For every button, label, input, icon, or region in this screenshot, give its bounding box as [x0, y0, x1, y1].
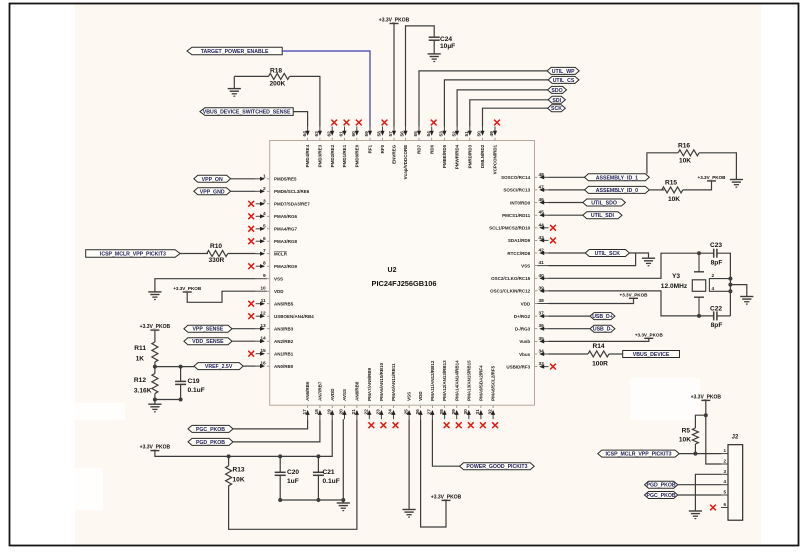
wire C24 to ground: [433, 40, 435, 54]
svg-text:AN7/RB7: AN7/RB7: [318, 381, 323, 401]
ground at pin 9 VSS: [148, 292, 161, 300]
junction R5 tap: [704, 413, 708, 417]
pin 57 ENVREG: [388, 127, 396, 164]
svg-text:3: 3: [723, 469, 726, 474]
ground below R18: [228, 89, 241, 97]
svg-text:0.1uF: 0.1uF: [323, 478, 340, 485]
junction C19 bottom: [179, 398, 183, 402]
svg-text:55: 55: [413, 131, 419, 137]
J2 pin 4: [721, 479, 728, 485]
svg-text:SCL1/PMCS2/RD10: SCL1/PMCS2/RD10: [489, 226, 531, 231]
wire pin 10 VDD to +3.3V_PKOB: [187, 291, 256, 302]
svg-text:USBOEN/AN4/RB4: USBOEN/AN4/RB4: [274, 314, 314, 319]
svg-text:POWER_GOOD_PICKIT3: POWER_GOOD_PICKIT3: [466, 464, 527, 470]
pin 32 PMA8/SCL2/RF5: [487, 365, 495, 419]
svg-text:5: 5: [723, 490, 726, 495]
svg-text:5: 5: [263, 223, 266, 229]
wire pin 41 VSS up to ground node: [549, 253, 636, 266]
svg-text:PMD7/SDA3/RE7: PMD7/SDA3/RE7: [274, 202, 310, 207]
svg-text:43: 43: [539, 235, 545, 241]
pin 43 SDA1/RD9: [508, 235, 549, 243]
svg-text:45: 45: [539, 210, 545, 216]
net flag UTIL_CS: [548, 76, 579, 84]
junction C20 top: [278, 454, 282, 458]
pin 60 PMD0/RE0: [351, 127, 359, 168]
svg-text:1K: 1K: [136, 356, 145, 363]
svg-text:19: 19: [326, 409, 332, 415]
svg-text:13: 13: [260, 323, 266, 329]
svg-text:17: 17: [302, 409, 308, 415]
svg-text:40: 40: [539, 273, 545, 279]
svg-text:+3.3V_PKOB: +3.3V_PKOB: [698, 175, 727, 180]
wire R16 to ground: [699, 153, 736, 180]
svg-text:ICSP_MCLR_VPP_PICKIT3: ICSP_MCLR_VPP_PICKIT3: [100, 252, 166, 258]
wire ASSEMBLY_ID_1 to R16: [647, 153, 678, 174]
no-connect X pin 22: [368, 422, 374, 428]
svg-text:PMBE/RD5: PMBE/RD5: [442, 144, 447, 168]
svg-text:7: 7: [263, 248, 266, 254]
svg-text:42: 42: [539, 248, 545, 254]
power +3.3V_PKOB at pin 26: [431, 494, 462, 500]
net flag UTIL_SDI: [583, 212, 622, 220]
svg-text:PMD4/RE4: PMD4/RE4: [305, 144, 310, 167]
svg-text:SCK: SCK: [551, 106, 562, 112]
svg-text:PMA9/SDA2/RF4: PMA9/SDA2/RF4: [479, 365, 484, 401]
svg-text:1: 1: [263, 173, 266, 179]
pin 29 PMA14/AN14/RB14: [451, 360, 459, 419]
svg-text:34: 34: [539, 349, 545, 355]
svg-text:30: 30: [463, 409, 469, 415]
svg-text:USB_D+: USB_D+: [592, 314, 613, 320]
pin 18 AN7/RB7: [314, 381, 322, 419]
svg-text:PGD_PKOB: PGD_PKOB: [196, 440, 225, 446]
svg-text:C24: C24: [440, 36, 452, 43]
pin 2 PMD6/SCL3/RE6: [256, 186, 310, 194]
pin 22 PMA7/AN9/RB9: [364, 367, 372, 419]
svg-text:AN8/RB8: AN8/RB8: [355, 381, 360, 401]
svg-text:PMRD/RD3: PMRD/RD3: [467, 144, 472, 168]
svg-text:100R: 100R: [592, 361, 608, 368]
svg-text:48: 48: [539, 172, 545, 178]
ground at pin 41 VSS: [642, 258, 655, 266]
wire C21 top lead: [317, 456, 319, 472]
no-connect X pin 15: [248, 351, 254, 357]
label R12: [134, 377, 146, 384]
svg-text:VCPCON/RD1: VCPCON/RD1: [493, 144, 498, 174]
svg-text:29: 29: [451, 409, 457, 415]
svg-text:63: 63: [314, 131, 320, 137]
net flag ICSP_MCLR_VPP_PICKIT3 (left): [86, 250, 180, 258]
net flag PGC_PKOB (right): [645, 492, 678, 500]
svg-text:C20: C20: [287, 469, 299, 476]
svg-text:+3.3V_PKOB: +3.3V_PKOB: [140, 324, 171, 330]
svg-text:12: 12: [260, 311, 266, 317]
pin 52 PMWR/RD4: [451, 127, 459, 170]
svg-text:Y3: Y3: [672, 273, 680, 280]
no-connect X pin 6: [248, 238, 254, 244]
label R15: [665, 180, 677, 187]
wire crystal ground tap: [730, 285, 746, 297]
pin 64 PMD4/RE4: [302, 127, 310, 168]
junction AVSS: [341, 498, 345, 502]
label C22: [710, 306, 722, 313]
svg-text:+3.3V_PKOB: +3.3V_PKOB: [140, 445, 171, 451]
svg-text:26: 26: [415, 409, 421, 415]
wire pin 50 to SCK: [483, 108, 548, 126]
svg-text:58: 58: [377, 131, 383, 137]
svg-text:PGC_PKOB: PGC_PKOB: [647, 493, 676, 499]
svg-text:VBUS_DEVICE_SWITCHED_SENSE: VBUS_DEVICE_SWITCHED_SENSE: [203, 110, 291, 116]
svg-text:VSS: VSS: [274, 277, 283, 282]
pin 30 PMA13/AN15/RB15: [463, 360, 471, 419]
svg-text:D-/RG3: D-/RG3: [515, 327, 531, 332]
svg-text:UTIL_SDI: UTIL_SDI: [591, 213, 615, 219]
wire VPP_GND to pin 2: [231, 190, 256, 192]
J2 pin 5: [721, 490, 728, 496]
svg-text:SDI: SDI: [552, 98, 561, 104]
no-connect X pin 11: [248, 301, 254, 307]
svg-text:VDD_SENSE: VDD_SENSE: [192, 339, 224, 345]
pin 36 D-/RG3: [515, 323, 549, 331]
pin 10 VDD: [256, 286, 285, 294]
svg-text:TARGET_POWER_ENABLE: TARGET_POWER_ENABLE: [201, 49, 269, 55]
svg-text:64: 64: [302, 131, 308, 137]
label 8pF (C22): [711, 322, 723, 329]
wire +3.3V_PKOB to pin 57: [393, 24, 395, 127]
svg-text:VREF_2.5V: VREF_2.5V: [205, 364, 233, 370]
svg-text:10K: 10K: [668, 196, 680, 203]
wire pin 40 OSC2 to crystal top rail: [549, 253, 714, 278]
svg-text:+3.3V_PKOB: +3.3V_PKOB: [173, 286, 202, 291]
capacitor C21: [313, 472, 324, 475]
wire ICSP_MCLR to J2 pin 1: [679, 453, 721, 455]
svg-text:21: 21: [351, 409, 357, 415]
svg-text:3.16K: 3.16K: [134, 388, 152, 395]
net flag VDD_SENSE: [184, 338, 232, 346]
ground AVSS: [337, 503, 350, 511]
svg-text:AN5/RB5: AN5/RB5: [274, 302, 294, 307]
pin 15 AN1/RB1: [256, 348, 294, 356]
pin 25 VSS: [403, 392, 411, 419]
label Y3: [672, 273, 680, 280]
svg-text:VPP_SENSE: VPP_SENSE: [192, 327, 223, 333]
pin 53 PMBE/RD5: [439, 127, 447, 169]
IC U2 part value: [372, 279, 437, 288]
svg-text:PMD2/RE2: PMD2/RE2: [330, 144, 335, 167]
svg-text:PMD5/RE5: PMD5/RE5: [274, 177, 297, 182]
wire pin 27 to POWER_GOOD_PICKIT3: [432, 419, 459, 466]
net flag USB_D+: [590, 313, 615, 321]
label 12.0MHz: [661, 283, 688, 290]
pin 58 RF0: [377, 127, 385, 154]
wire pin 53 to UTIL_CS: [444, 80, 548, 127]
svg-text:56: 56: [400, 131, 406, 137]
svg-text:R10: R10: [210, 243, 222, 250]
svg-text:OSC2/CLKO/RC15: OSC2/CLKO/RC15: [491, 276, 531, 281]
svg-text:52: 52: [451, 131, 457, 137]
svg-text:0.1uF: 0.1uF: [188, 387, 205, 394]
power +3.3V_PKOB at pin 38: [620, 292, 649, 298]
svg-text:PMA13/AN15/RB15: PMA13/AN15/RB15: [466, 360, 471, 401]
power +3.3V_PKOB at AVDD bus: [140, 445, 171, 451]
pin 37 D+/RG2: [514, 311, 549, 319]
resistor R16: [678, 150, 699, 156]
net flag VBUS_DEVICE_SWITCHED_SENSE: [200, 108, 293, 116]
label 200K: [270, 80, 286, 87]
junction crystal bottom: [697, 314, 701, 318]
svg-text:+3.3V_PKOB: +3.3V_PKOB: [620, 292, 649, 297]
label 10K (R15): [668, 196, 680, 203]
net flag PGD_PKOB (right): [645, 481, 678, 489]
wire pin 45 to UTIL_SDI: [549, 214, 583, 216]
no-connect X pin 5: [248, 226, 254, 232]
pin 27 PMA11/AN12/RB12: [427, 360, 435, 419]
svg-text:3: 3: [263, 198, 266, 204]
pin 34 Vbus: [519, 349, 548, 357]
power +3.3V_PKOB at R11: [140, 324, 171, 330]
net flag PGC_PKOB (left): [188, 425, 233, 433]
label 0.1uF (C21): [323, 478, 340, 485]
net flag USB_D-: [590, 325, 615, 333]
svg-text:57: 57: [388, 131, 394, 137]
net flag ASSEMBLY_ID_0: [585, 186, 650, 194]
svg-text:RF0: RF0: [380, 144, 385, 153]
no-connect X pin 58: [382, 120, 388, 126]
wire J2 pin 3 to ground: [695, 474, 721, 511]
wire C20/C21 ground bus: [280, 499, 343, 501]
svg-text:RD7: RD7: [417, 144, 422, 153]
no-connect X pin 44: [550, 225, 556, 231]
svg-text:J2: J2: [732, 435, 739, 441]
svg-text:C21: C21: [323, 469, 335, 476]
wire PGD_PKOB to pin 18: [233, 419, 320, 442]
svg-text:32: 32: [487, 409, 493, 415]
wire VREF node to flag: [155, 366, 194, 368]
svg-text:46: 46: [539, 197, 545, 203]
svg-text:54: 54: [426, 131, 432, 137]
svg-text:16: 16: [260, 361, 266, 367]
wire R11 bottom to node VREF: [154, 362, 156, 367]
wire ground to R18 left: [234, 75, 268, 77]
wire TARGET_POWER_ENABLE to pin 59 (blue): [282, 51, 370, 127]
svg-text:AN6/RB6: AN6/RB6: [305, 381, 310, 401]
svg-text:VPP_ON: VPP_ON: [202, 177, 223, 183]
no-connect X pin 12: [248, 313, 254, 319]
wire pin 9 VSS to ground: [155, 279, 256, 292]
op-amp U2 body (PIC24FJ256GB106 IC outline): [270, 141, 535, 406]
svg-text:60: 60: [351, 131, 357, 137]
net flag SCK: [548, 105, 566, 113]
svg-text:ICSP_MCLR_VPP_PICKIT3: ICSP_MCLR_VPP_PICKIT3: [605, 452, 671, 458]
svg-text:VBUS_DEVICE: VBUS_DEVICE: [633, 352, 670, 358]
pin 1 PMD5/RE5: [256, 173, 297, 181]
svg-text:10: 10: [260, 286, 266, 292]
junction R5 to MCLR net: [693, 452, 697, 456]
ground below R12: [148, 404, 161, 412]
wire PGC_PKOB to J2 pin 5: [678, 494, 721, 496]
svg-text:D+/RG2: D+/RG2: [514, 314, 531, 319]
svg-text:PMWR/RD4: PMWR/RD4: [455, 144, 460, 169]
no-connect X pin 23: [381, 422, 387, 428]
net flag ICSP_MCLR_VPP_PICKIT3 (right): [598, 450, 679, 458]
resistor R10: [207, 251, 228, 257]
wire pin 39 OSC1 to crystal bottom rail: [549, 291, 714, 316]
svg-text:6: 6: [263, 236, 266, 242]
svg-text:R12: R12: [134, 377, 146, 384]
svg-text:PMCS1/RD11: PMCS1/RD11: [502, 213, 531, 218]
power +3.3V_PKOB at pin 57: [379, 18, 410, 24]
svg-text:200K: 200K: [270, 80, 286, 87]
wire C22 to ground rail: [717, 315, 730, 317]
svg-text:R13: R13: [233, 467, 245, 474]
junction R12/C19 ground node: [153, 398, 157, 402]
svg-text:18: 18: [314, 409, 320, 415]
pin 13 AN3/RB3: [256, 323, 294, 331]
wire node to R12 top: [154, 367, 156, 374]
no-connect X pin 60: [356, 120, 362, 126]
wire C20 bottom lead: [279, 475, 281, 500]
crystal case pins 2 and 4: [709, 273, 730, 292]
pin 56 Vcap/VDDCORE: [400, 127, 408, 180]
label C23: [710, 242, 722, 249]
svg-text:+3.3V_PKOB: +3.3V_PKOB: [431, 494, 462, 500]
ground at R16: [730, 180, 743, 188]
svg-text:+3.3V_PKOB: +3.3V_PKOB: [691, 394, 722, 400]
svg-text:25: 25: [403, 409, 409, 415]
wire C21 bottom lead: [317, 475, 319, 500]
svg-text:2: 2: [712, 273, 715, 279]
wire C19 top lead: [180, 367, 182, 382]
wire PGD_PKOB to J2 pin 4: [678, 484, 721, 486]
pin 54 RD6: [426, 127, 434, 154]
svg-text:AVDD: AVDD: [330, 388, 335, 401]
wire pin 55 to UTIL_WP: [419, 71, 547, 127]
pin 20 AVSS: [339, 389, 347, 419]
svg-text:OSC1/CLKIN/RC12: OSC1/CLKIN/RC12: [490, 289, 531, 294]
svg-text:PIC24FJ256GB106: PIC24FJ256GB106: [372, 279, 437, 288]
svg-text:VDD: VDD: [521, 301, 531, 306]
wire R12 bottom: [154, 394, 156, 400]
svg-text:28: 28: [439, 409, 445, 415]
pin 51 PMRD/RD3: [464, 127, 472, 169]
pin 21 AN8/RB8: [351, 381, 359, 419]
wire pin 52 to SDO: [457, 90, 547, 127]
svg-text:4: 4: [723, 479, 726, 484]
no-connect X pin 31: [480, 422, 486, 428]
svg-text:44: 44: [539, 222, 545, 228]
capacitor C23: [714, 249, 717, 258]
net label VBUS_DEVICE: [623, 351, 680, 359]
svg-text:8pF: 8pF: [711, 260, 723, 267]
svg-text:15: 15: [260, 348, 266, 354]
ground at crystal: [740, 297, 753, 305]
power +3.3V_PKOB at pin 10: [173, 286, 202, 292]
svg-text:24: 24: [388, 409, 394, 415]
pin 7 MCLR: [256, 248, 288, 256]
svg-text:10K: 10K: [679, 437, 691, 444]
no-connect X pin 8: [248, 263, 254, 269]
svg-text:R18: R18: [270, 67, 282, 74]
net flag TARGET_POWER_ENABLE: [187, 47, 282, 55]
pin 28 PMA12/AN13/RB13: [439, 360, 447, 419]
wire R13 bottom to pin 21: [229, 419, 357, 529]
pin 24 PMA0/AN11/RB11: [388, 363, 396, 419]
net flag SDO: [548, 86, 567, 94]
svg-text:ASSEMBLY_ID_0: ASSEMBLY_ID_0: [596, 188, 638, 194]
svg-text:USB_D-: USB_D-: [593, 327, 613, 333]
label 10K (R5): [679, 437, 691, 444]
svg-text:14: 14: [260, 336, 266, 342]
svg-text:DMLN/RD2: DMLN/RD2: [480, 144, 485, 168]
pin 50 DMLN/RD2: [477, 127, 485, 169]
svg-text:10µF: 10µF: [440, 43, 455, 50]
label R13: [233, 467, 245, 474]
pin 61 PMD1/RE1: [339, 127, 347, 168]
wire pin 25 VSS down: [408, 419, 410, 509]
pin 63 PMD3/RE3: [314, 127, 322, 168]
svg-text:AN0/RB0: AN0/RB0: [274, 364, 294, 369]
resistor R13: [226, 466, 232, 486]
wire ICSP flag to R10: [180, 253, 208, 255]
wire pin 38 VDD to +3.3V: [549, 298, 634, 303]
svg-text:AN3/RB3: AN3/RB3: [274, 327, 294, 332]
svg-text:38: 38: [539, 298, 545, 304]
svg-text:35: 35: [539, 336, 545, 342]
pin 62 PMD2/RE2: [326, 127, 334, 168]
svg-text:PMD0/RE0: PMD0/RE0: [354, 144, 359, 167]
pin 40 OSC2/CLKO/RC15: [491, 273, 548, 281]
svg-text:36: 36: [539, 323, 545, 329]
svg-text:11: 11: [261, 298, 266, 304]
net flag UTIL_SDO: [583, 199, 626, 207]
wire R14 to VBUS_DEVICE: [609, 353, 623, 355]
no-connect X pin 33: [550, 364, 556, 370]
pin 59 RF1: [364, 127, 372, 154]
no-connect X pin 54: [431, 120, 437, 126]
label 3.16K: [134, 388, 152, 395]
svg-text:8pF: 8pF: [711, 322, 723, 329]
svg-text:47: 47: [539, 184, 545, 190]
svg-text:PMA4/RG7: PMA4/RG7: [274, 227, 298, 232]
pin 31 PMA9/SDA2/RF4: [475, 365, 483, 419]
svg-text:USBID/RF3: USBID/RF3: [506, 364, 530, 369]
pin 33 USBID/RF3: [506, 361, 548, 369]
svg-text:PMD1/RE1: PMD1/RE1: [342, 144, 347, 167]
junction crystal top: [697, 251, 701, 255]
svg-text:INT0/RD0: INT0/RD0: [510, 200, 531, 205]
wire pin 42 to UTIL_SCK: [549, 252, 586, 254]
net flag VPP_ON: [194, 175, 231, 183]
no-connect X pin 49: [494, 120, 500, 126]
wire pin 51 to SDI: [470, 100, 548, 127]
svg-text:VSS: VSS: [407, 392, 412, 401]
svg-text:PMA0/AN11/RB11: PMA0/AN11/RB11: [391, 363, 396, 401]
J2 pin 1: [721, 448, 728, 454]
junction case pin 2: [728, 277, 732, 281]
junction R13 top: [227, 454, 231, 458]
wire +3.3V to R11 top: [154, 330, 156, 342]
svg-text:PMD6/SCL3/RE6: PMD6/SCL3/RE6: [274, 189, 310, 194]
wire to ground stem: [154, 400, 156, 405]
resistor R12: [152, 374, 158, 394]
svg-text:RF1: RF1: [368, 144, 373, 153]
wire +3.3V to J2 pin 2: [706, 400, 721, 464]
svg-text:R5: R5: [682, 428, 691, 435]
pin 44 SCL1/PMCS2/RD10: [489, 222, 548, 230]
pin 46 INT0/RD0: [510, 197, 548, 205]
svg-text:PMA5/RG6: PMA5/RG6: [274, 214, 298, 219]
svg-text:2: 2: [263, 186, 266, 192]
